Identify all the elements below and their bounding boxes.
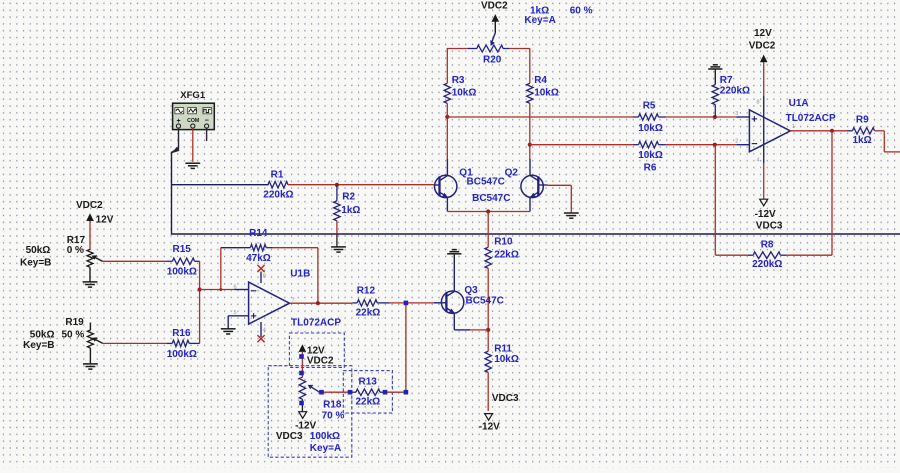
wire jog corner — [171, 147, 179, 154]
resistor R11 — [485, 351, 491, 372]
wire R8 to output node — [786, 254, 832, 256]
node R1/R2 junction — [335, 183, 339, 187]
potentiometer R19 — [87, 330, 93, 348]
wire R12 to Q3 base — [390, 302, 435, 304]
svg-text:Key=A: Key=A — [524, 15, 555, 26]
lead R16 left — [167, 342, 172, 344]
svg-text:50kΩ: 50kΩ — [26, 245, 51, 256]
lead R20 right — [503, 48, 509, 50]
svg-text:R10: R10 — [494, 236, 513, 247]
wire U1B output — [290, 302, 353, 304]
wire net A long feedback line — [172, 233, 900, 235]
resistor R3 — [444, 83, 450, 103]
lead Q3 emitter — [453, 313, 455, 330]
svg-text:100kΩ: 100kΩ — [310, 431, 340, 442]
ground Q2 base — [564, 213, 579, 218]
svg-text:R5: R5 — [643, 101, 656, 112]
lead R13 left — [348, 391, 357, 393]
node emitter junction — [486, 209, 490, 213]
svg-text:R1: R1 — [271, 170, 284, 181]
svg-text:R9: R9 — [856, 115, 869, 126]
ground U1B plus — [221, 329, 236, 334]
power VDC2 arrow left — [86, 213, 94, 221]
lead R19 bottom — [89, 348, 91, 363]
node R15/R16 to U1B minus — [198, 287, 202, 291]
wire output down to R8 — [831, 131, 833, 255]
svg-text:R3: R3 — [452, 75, 465, 86]
svg-text:R14: R14 — [249, 228, 268, 239]
wire jog — [171, 148, 179, 153]
lead R13 right — [380, 391, 387, 393]
wire R17 wiper to R15 — [103, 260, 168, 262]
svg-text:U1B: U1B — [290, 268, 310, 279]
op-amp U1A — [749, 110, 790, 152]
wire branch to R1 — [172, 184, 269, 186]
op-amp U1B — [249, 282, 290, 324]
node R8 junction — [713, 143, 717, 147]
resistor R5 — [639, 114, 659, 120]
lead R8 left — [748, 254, 753, 256]
svg-text:R19: R19 — [65, 317, 84, 328]
svg-text:TL072ACP: TL072ACP — [786, 113, 836, 124]
svg-text:3: 3 — [735, 111, 738, 117]
power VDC3 arrow R11 — [485, 414, 493, 421]
svg-text:−: − — [205, 116, 210, 125]
resistor R2 — [334, 201, 340, 221]
wire ground stub — [453, 254, 455, 262]
svg-text:VDC2: VDC2 — [749, 40, 776, 51]
resistor R14 — [250, 245, 266, 251]
wiper R17 — [95, 258, 102, 262]
wire R2 top lead — [336, 185, 338, 201]
handle R13 right — [383, 390, 388, 395]
svg-text:12V: 12V — [754, 28, 772, 39]
svg-text:0 %: 0 % — [67, 245, 84, 256]
plus sign U1A — [752, 116, 757, 143]
svg-text:100kΩ: 100kΩ — [167, 267, 197, 278]
wire U1A output — [790, 130, 847, 132]
lead R20 left — [468, 48, 477, 50]
wire XFG1 plus terminal down — [178, 128, 180, 148]
ground XFG1 COM — [185, 163, 200, 168]
svg-text:VDC2: VDC2 — [307, 356, 334, 367]
resistor R9 — [853, 128, 875, 134]
svg-text:220kΩ: 220kΩ — [752, 259, 782, 270]
lead R8 right — [780, 254, 786, 256]
wire VDC2 to pin8 — [763, 62, 765, 96]
power VDC2 arrow U1A — [760, 55, 768, 63]
wire XFG1 COM to ground — [192, 128, 194, 162]
svg-text:R7: R7 — [720, 75, 733, 86]
wire to R8 — [715, 254, 748, 256]
wire R10 to R11 — [487, 268, 489, 351]
lead Q2 base — [538, 184, 547, 186]
wire R20 left — [447, 48, 468, 50]
svg-text:Key=B: Key=B — [20, 257, 51, 268]
wire junction down to R13 — [405, 305, 407, 390]
potentiometer R17 — [87, 249, 93, 267]
ground Q3 collector — [447, 250, 461, 254]
wiper R20 arrowhead — [490, 40, 495, 46]
lead R14 left — [221, 247, 251, 249]
handle junction — [404, 390, 409, 395]
wiper R20 lead — [492, 33, 495, 42]
resistor R16 — [172, 340, 189, 346]
lead R14 right — [266, 247, 272, 249]
selection box R13 — [343, 371, 392, 413]
lead R6 right — [659, 144, 666, 146]
svg-text:1kΩ: 1kΩ — [341, 205, 360, 216]
wire VDC2 to R18 — [301, 352, 303, 378]
svg-text:4: 4 — [757, 158, 760, 164]
svg-text:Q2: Q2 — [505, 168, 519, 179]
wire down to R4 — [529, 48, 531, 83]
svg-text:8: 8 — [757, 100, 760, 106]
wire R5 to U1A plus — [666, 116, 737, 118]
resistor R6 — [639, 142, 659, 148]
power VDC2 arrow top — [492, 14, 500, 22]
svg-text:COM: COM — [187, 118, 199, 124]
svg-text:22kΩ: 22kΩ — [494, 250, 519, 261]
lead Q1 emitter — [446, 197, 448, 211]
lead Q3 base — [434, 302, 446, 304]
node R3/R5 junction — [445, 115, 449, 119]
wire vertical to net A — [171, 152, 173, 234]
lead R12 left — [352, 302, 357, 304]
transistor Q1 — [435, 175, 457, 197]
lead R6 left — [633, 144, 639, 146]
wire R9 right — [875, 130, 885, 132]
wire wiper to R13 — [322, 391, 348, 393]
wire XFG1 minus stub — [206, 128, 208, 141]
wire R14 to output — [317, 248, 319, 304]
svg-text:12V: 12V — [96, 214, 114, 225]
wiper R18 — [312, 387, 320, 392]
lead R7 bottom — [714, 105, 716, 117]
lead U1A plus input — [736, 116, 749, 118]
lead U1A minus input — [736, 144, 749, 146]
node R14 branch — [219, 288, 222, 291]
svg-text:50 %: 50 % — [62, 329, 85, 340]
selection box VDC2 power R18 — [289, 333, 344, 368]
svg-text:220kΩ: 220kΩ — [720, 86, 750, 97]
svg-text:10kΩ: 10kΩ — [494, 354, 519, 365]
svg-text:60 %: 60 % — [570, 6, 593, 17]
lead R15 right — [195, 260, 200, 262]
node R4/R6 junction — [528, 143, 532, 147]
wire R1 to Q1 base — [288, 184, 434, 186]
svg-text:R6: R6 — [644, 162, 657, 173]
wire R4 to Q2 collector — [529, 103, 531, 159]
resistor R15 — [173, 258, 195, 264]
potentiometer R20 — [477, 45, 503, 52]
svg-text:47kΩ: 47kΩ — [246, 253, 271, 264]
lead Q2 collector — [529, 159, 531, 175]
svg-text:1: 1 — [792, 124, 795, 130]
wire exit right — [884, 151, 900, 153]
svg-text:10kΩ: 10kΩ — [638, 123, 663, 134]
lead R17 bottom — [89, 267, 91, 281]
power VDC3 arrow U1A — [760, 199, 768, 206]
wire Q3 emitter elbow — [454, 329, 470, 331]
lead Q1 base — [434, 184, 440, 186]
svg-text:Key=A: Key=A — [310, 443, 341, 454]
svg-text:70 %: 70 % — [322, 410, 345, 421]
resistor R13 — [356, 389, 380, 395]
resistor R4 — [527, 83, 533, 103]
wire R4 node to R6 — [530, 144, 633, 146]
power VDC3 arrow R18 — [299, 412, 307, 419]
lead U1B pin4 — [260, 322, 262, 337]
ground R7 — [708, 65, 722, 69]
handle R18 wiper — [319, 390, 324, 395]
wire R20 right — [509, 48, 530, 50]
function generator XFG1 — [173, 103, 215, 129]
svg-text:2: 2 — [735, 138, 738, 144]
transistor Q2 — [521, 175, 543, 197]
wire R2 ground stub — [336, 235, 338, 247]
resistor R1 — [268, 182, 288, 188]
svg-text:4: 4 — [263, 328, 266, 334]
svg-text:VDC3: VDC3 — [756, 221, 783, 232]
svg-text:VDC2: VDC2 — [481, 1, 508, 12]
wire ground to R7 — [714, 69, 716, 85]
node handle R12/R13 junction — [404, 301, 409, 306]
wire R3 to Q1 collector — [446, 103, 448, 159]
wiper R19 — [96, 340, 103, 344]
resistor R10 — [485, 247, 491, 268]
svg-text:22kΩ: 22kΩ — [356, 307, 381, 318]
svg-text:R8: R8 — [761, 240, 774, 251]
svg-text:-12V: -12V — [755, 209, 776, 220]
wire R15/R16 vertical — [199, 261, 201, 343]
ground R19 — [83, 364, 98, 369]
wire U1B plus to ground — [227, 316, 229, 329]
lead Q1 collector — [446, 159, 448, 175]
svg-text:VDC3: VDC3 — [276, 431, 303, 442]
lead R5 right — [659, 116, 666, 118]
svg-text:10kΩ: 10kΩ — [534, 87, 559, 98]
node Q3 emitter junction — [486, 328, 490, 332]
lead U1B minus — [234, 289, 248, 291]
potentiometer R18 — [299, 377, 305, 399]
wire R14 right — [272, 247, 318, 249]
wire R11 to VDC3 — [487, 372, 489, 411]
wire R13 to junction — [387, 391, 406, 393]
svg-text:U1A: U1A — [789, 98, 809, 109]
svg-text:BC547C: BC547C — [472, 193, 510, 204]
svg-text:10kΩ: 10kΩ — [452, 87, 477, 98]
svg-text:-12V: -12V — [295, 421, 316, 432]
lead R19 top stub — [89, 323, 91, 331]
svg-text:R4: R4 — [534, 75, 547, 86]
wire pin4 to VDC3 — [763, 163, 765, 200]
svg-text:VDC2: VDC2 — [76, 200, 103, 211]
lead Q3 collector — [453, 262, 455, 291]
svg-text:BC547C: BC547C — [466, 296, 504, 307]
wire VDC2 to R17 — [89, 221, 91, 249]
wire R6 to U1A minus — [666, 144, 737, 146]
resistor R7 — [712, 85, 718, 105]
svg-text:R18: R18 — [323, 399, 342, 410]
wire VDC2 arrow stem — [494, 22, 496, 33]
node R7 junction — [713, 115, 717, 119]
minus plus signs U1B — [251, 291, 256, 319]
handle R18 bottom — [299, 401, 304, 406]
transistor Q3 — [441, 291, 463, 313]
no-connect X U1B pin4 — [257, 335, 264, 342]
ground R17 — [83, 282, 98, 287]
wire to U1B minus — [200, 289, 235, 291]
wire R6 node down to R8 — [714, 145, 716, 256]
svg-text:10kΩ: 10kΩ — [638, 150, 663, 161]
node output/R14 junction — [316, 301, 320, 305]
lead R16 right — [189, 342, 199, 344]
wire R14 left vertical — [220, 248, 222, 290]
resistor R8 — [753, 252, 780, 259]
power VDC2 arrow R18 — [299, 344, 307, 352]
ground R2 — [331, 247, 346, 252]
node output/R8 junction — [830, 129, 834, 133]
resistor R12 — [357, 300, 377, 306]
wire down to R3 — [446, 48, 448, 83]
svg-text:TL072ACP: TL072ACP — [291, 318, 341, 329]
wire Q3 emitter to node — [470, 329, 488, 331]
wire Q2 base to ground — [548, 184, 572, 186]
svg-text:BC547C: BC547C — [467, 177, 505, 188]
svg-text:-12V: -12V — [479, 422, 500, 433]
wire emitters join — [447, 211, 530, 213]
svg-text:22kΩ: 22kΩ — [356, 397, 381, 408]
wire to R10 — [487, 212, 489, 248]
svg-text:100kΩ: 100kΩ — [167, 349, 197, 360]
svg-text:1kΩ: 1kΩ — [853, 135, 872, 146]
handle R18 top — [299, 371, 304, 376]
lead U1A power pins — [763, 96, 765, 163]
lead R5 left — [633, 116, 639, 118]
lead Q2 emitter — [529, 197, 531, 211]
selection box R18 VDC3 — [268, 366, 352, 458]
svg-text:Key=B: Key=B — [23, 340, 54, 351]
no-connect X U1B pin8 — [257, 265, 264, 272]
lead R12 right — [377, 302, 389, 304]
lead U1B plus — [228, 315, 248, 317]
wire down to ground — [570, 185, 572, 212]
svg-text:XFG1: XFG1 — [180, 90, 206, 101]
svg-text:R2: R2 — [342, 191, 355, 202]
svg-text:8: 8 — [263, 274, 266, 280]
wire down — [883, 131, 885, 152]
svg-text:R13: R13 — [359, 376, 378, 387]
lead R9 left — [847, 130, 853, 132]
svg-text:VDC3: VDC3 — [492, 393, 519, 404]
svg-text:220kΩ: 220kΩ — [263, 189, 293, 200]
svg-text:R15: R15 — [173, 244, 192, 255]
wire R19 wiper to R16 — [103, 342, 167, 344]
lead R18 bottom to VDC3 — [301, 399, 303, 412]
handle VDC2 R18 — [299, 354, 304, 359]
wire R2 bottom — [336, 221, 338, 234]
wire R3 node to R5 — [447, 116, 633, 118]
lead U1B pin8 — [260, 272, 262, 284]
handle R13 left — [348, 390, 353, 395]
svg-text:50kΩ: 50kΩ — [30, 329, 55, 340]
svg-text:R20: R20 — [483, 54, 502, 65]
svg-text:R12: R12 — [357, 285, 376, 296]
svg-text:R16: R16 — [172, 328, 191, 339]
lead R15 left — [167, 260, 173, 262]
